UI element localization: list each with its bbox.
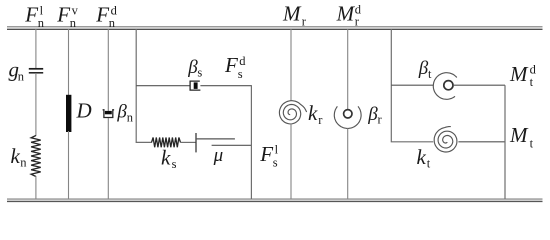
- svg-text:F: F: [259, 142, 273, 166]
- svg-text:t: t: [428, 67, 432, 81]
- wire: top branch left segment: [136, 85, 190, 87]
- svg-text:r: r: [318, 113, 323, 127]
- rigid element D: [66, 95, 71, 132]
- wire: branch F_n^v upper: [68, 29, 70, 96]
- svg-text:M: M: [336, 1, 356, 25]
- svg-text:n: n: [18, 70, 25, 84]
- label g_n: [9, 58, 25, 84]
- damper beta_s: [190, 81, 200, 90]
- wire: top branch right segment: [200, 85, 252, 87]
- svg-text:n: n: [109, 16, 116, 30]
- label F_n^v: [56, 2, 78, 30]
- friction element mu: upper plate: [196, 138, 235, 140]
- wire: standard-solid sub-network left vertical: [136, 29, 152, 142]
- wire: k_t to right vertical: [458, 141, 505, 143]
- wire: sub-network right vertical: [250, 86, 252, 199]
- label M_r: [282, 1, 307, 28]
- wire: branch F_n^d upper: [107, 29, 109, 112]
- svg-text:μ: μ: [213, 145, 224, 166]
- label F_s^d: [224, 53, 246, 81]
- label beta_n: [116, 102, 133, 125]
- svg-text:β: β: [116, 102, 127, 123]
- label k_r: [308, 101, 323, 127]
- rotational spring k_t (spiral): [434, 127, 457, 152]
- label beta_t: [418, 58, 432, 81]
- damper beta_n: [103, 110, 115, 118]
- label mu: [213, 145, 224, 166]
- svg-text:k: k: [417, 145, 427, 169]
- label F_n^l: [24, 2, 45, 30]
- svg-text:s: s: [172, 157, 177, 171]
- svg-text:F: F: [56, 2, 70, 26]
- svg-text:l: l: [275, 142, 279, 156]
- label M_r^d: [336, 1, 362, 28]
- svg-text:D: D: [76, 98, 92, 122]
- wire: D to bottom rail: [68, 131, 70, 199]
- wire: k_s to friction bar: [181, 141, 197, 143]
- svg-text:k: k: [308, 101, 318, 125]
- wire: M_r lower: [290, 124, 292, 199]
- label k_t: [417, 145, 431, 171]
- label D: [76, 98, 92, 122]
- svg-text:t: t: [530, 75, 534, 89]
- wire: top branch to beta_t: [391, 84, 433, 86]
- rotational damper beta_t: shaft circle: [444, 81, 453, 90]
- svg-text:n: n: [20, 156, 27, 170]
- svg-text:k: k: [11, 144, 21, 168]
- wire: torsional sub-network right vertical: [504, 85, 506, 199]
- wire: M_r^d lower: [347, 128, 349, 199]
- wire: branch M_r^d upper: [347, 29, 349, 110]
- svg-text:t: t: [427, 157, 431, 171]
- svg-text:M: M: [509, 62, 529, 86]
- rotational damper beta_r: housing arc: [334, 106, 361, 128]
- svg-text:s: s: [273, 156, 278, 170]
- svg-text:n: n: [38, 16, 45, 30]
- bottom rail: [7, 199, 543, 202]
- svg-text:s: s: [238, 67, 243, 81]
- rotational damper beta_r: shaft circle: [344, 110, 352, 118]
- svg-text:F: F: [95, 2, 109, 26]
- label M_t: [509, 123, 534, 150]
- svg-text:F: F: [24, 2, 38, 26]
- wire: between g_n and k_n: [35, 73, 37, 136]
- rotational spring k_r (spiral): [279, 101, 306, 124]
- wire: torsional sub-network left vertical: [391, 29, 433, 142]
- svg-text:k: k: [161, 146, 171, 170]
- spring k_n: [31, 136, 41, 177]
- capacitor g_n: [29, 69, 43, 73]
- svg-text:n: n: [127, 110, 134, 124]
- wire: beta_t to right vertical: [453, 84, 505, 86]
- svg-text:t: t: [530, 137, 534, 151]
- wire: branch F_n^l upper: [35, 29, 37, 68]
- label beta_s: [187, 57, 202, 80]
- friction element mu: vertical bar: [195, 133, 197, 152]
- label k_s: [161, 146, 177, 172]
- svg-text:r: r: [378, 113, 383, 127]
- wire: branch M_r upper: [290, 29, 292, 101]
- friction element mu: lower plate: [212, 144, 252, 146]
- rotational damper beta_t: housing arc: [433, 73, 457, 100]
- top rail: [7, 26, 543, 30]
- label F_n^d: [95, 2, 117, 30]
- wire: k_n to bottom rail: [35, 176, 37, 199]
- label M_t^d: [509, 62, 537, 89]
- label F_s^l: [259, 142, 278, 170]
- svg-text:M: M: [509, 123, 529, 147]
- wire: beta_n to bottom rail: [107, 118, 109, 199]
- spring k_s: [152, 138, 181, 148]
- svg-text:M: M: [282, 1, 302, 25]
- svg-text:F: F: [224, 53, 238, 77]
- svg-text:n: n: [70, 16, 77, 30]
- svg-text:s: s: [197, 66, 202, 80]
- label k_n: [11, 144, 28, 170]
- label beta_r: [367, 104, 382, 127]
